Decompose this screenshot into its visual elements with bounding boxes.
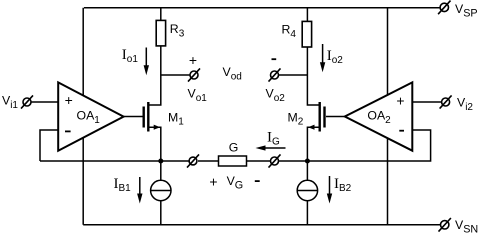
wire R3 bottom lead to M1 drain: [148, 46, 161, 105]
wire bottom supply rail: [83, 224, 440, 226]
terminal Vo2: [269, 68, 281, 81]
svg-text:IB1: IB1: [114, 176, 132, 194]
transistor M1 gate bar: [142, 107, 144, 128]
current arrow Io1: [144, 48, 149, 76]
wire OA2 supply line: [387, 8, 389, 225]
svg-text:VG: VG: [227, 174, 244, 192]
terminal Vi1: [21, 95, 33, 108]
wire R4 top lead: [306, 8, 308, 22]
terminal Vi2: [440, 95, 452, 108]
transistor M2 gate bar: [323, 107, 325, 128]
transistor M1 channel bar: [147, 102, 149, 132]
label Vo2 minus: [272, 58, 277, 60]
svg-text:Vi2: Vi2: [457, 96, 473, 114]
terminal VSP: [438, 1, 450, 15]
node B junction dot: [305, 159, 310, 164]
svg-text:Vo2: Vo2: [266, 87, 286, 105]
wire Vi1 to OA1: [31, 101, 58, 103]
wire top supply rail: [84, 7, 440, 9]
svg-text:+: +: [189, 52, 197, 68]
wire R4 bottom lead to M2 drain: [307, 47, 319, 105]
op-amp OA1: [58, 82, 123, 150]
wire node B and OA2 feedback: [279, 130, 431, 161]
wire Vo1 tap: [161, 74, 190, 76]
svg-text:VSN: VSN: [455, 218, 478, 235]
wire OA1 supply line: [82, 8, 84, 225]
resistor R3: [156, 20, 165, 46]
svg-text:+: +: [209, 173, 217, 189]
svg-text:VSP: VSP: [455, 2, 478, 19]
wire node A segment: [40, 160, 190, 162]
svg-text:IG: IG: [267, 129, 280, 147]
current source IB2: [297, 180, 317, 200]
current source IB2 leads: [306, 161, 308, 225]
svg-text:R3: R3: [170, 22, 185, 40]
svg-text:IB2: IB2: [334, 176, 352, 194]
terminal node A: [187, 154, 199, 167]
label OA1 minus: [65, 130, 71, 132]
label OA2 minus: [399, 130, 404, 132]
terminal node B: [269, 154, 281, 167]
svg-text:Vi1: Vi1: [2, 94, 18, 112]
terminal VSN: [439, 218, 451, 232]
svg-text:M2: M2: [288, 110, 304, 127]
current arrow IB2: [327, 176, 332, 204]
current source IB1 leads: [160, 161, 162, 225]
label VG minus: [255, 180, 260, 182]
svg-text:Vo1: Vo1: [188, 87, 208, 105]
svg-text:Io1: Io1: [122, 47, 139, 65]
transistor M1 source arrow: [154, 125, 161, 130]
wire node A to G box: [198, 160, 219, 162]
node A junction dot: [158, 159, 163, 164]
svg-text:+: +: [65, 92, 73, 108]
wire Vo2 tap: [279, 74, 308, 76]
wire M1 source to node A: [148, 127, 161, 161]
conductance G box: [219, 156, 247, 166]
wire G box to node B terminal: [247, 160, 271, 162]
terminal Vo1: [188, 68, 200, 81]
svg-text:Vod: Vod: [223, 65, 242, 83]
svg-text:M1: M1: [168, 111, 184, 128]
wire OA1 feedback: [40, 130, 58, 161]
wire Vi2 to OA2: [412, 101, 441, 103]
transistor M2 source arrow: [308, 125, 315, 130]
current arrow IG: [256, 145, 286, 150]
wire M2 gate lead: [326, 116, 345, 118]
svg-text:Io2: Io2: [327, 48, 344, 66]
svg-text:+: +: [396, 92, 404, 108]
current arrow IB1: [137, 177, 142, 204]
wire M2 source to node B: [307, 127, 319, 161]
wire R3 top lead: [160, 8, 162, 21]
current source IB1: [151, 180, 171, 200]
current arrow Io2: [320, 44, 325, 72]
wire M1 gate lead: [124, 116, 143, 118]
svg-text:R4: R4: [282, 23, 297, 41]
resistor R4: [302, 21, 311, 47]
transistor M2 channel bar: [319, 102, 321, 132]
op-amp OA2: [345, 82, 413, 150]
svg-text:G: G: [229, 140, 239, 154]
